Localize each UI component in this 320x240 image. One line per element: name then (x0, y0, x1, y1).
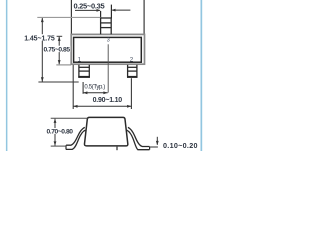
dimension 0.75~0.85 body depth (57, 35, 63, 37)
center line pin3 (107, 44, 109, 92)
svg-text:1.45~1.75: 1.45~1.75 (24, 35, 55, 42)
svg-text:0.75~0.85: 0.75~0.85 (44, 46, 71, 53)
side view: back center lead tick (116, 147, 118, 151)
dimension 0.70~0.80 height (51, 117, 88, 119)
pin 2 lead (top view) (128, 65, 137, 78)
dimension 0.25~0.35 lead width (75, 9, 130, 11)
package body outline (top view, outer mold line) (71, 34, 144, 64)
svg-text:3: 3 (107, 37, 110, 43)
svg-text:0.10~0.20: 0.10~0.20 (163, 141, 198, 150)
svg-text:0.70~0.80: 0.70~0.80 (47, 128, 74, 135)
svg-text:2: 2 (130, 57, 134, 64)
dimension 0.10~0.20 lead thickness (150, 146, 158, 148)
pin 3 witness extensions (100, 11, 102, 18)
package body outline (top view, inner top-surface line) (74, 37, 142, 62)
side view: lead pin right (gull wing) (127, 127, 150, 149)
table border right (blue) (201, 0, 203, 151)
dimension 0.90~1.10 pitch (72, 65, 74, 109)
svg-text:0.5(Typ.): 0.5(Typ.) (84, 84, 105, 90)
wire: cropped witness line to body right corner (143, 0, 145, 34)
pin 1 lead (top view) (79, 65, 89, 78)
svg-text:0.25~0.35: 0.25~0.35 (74, 1, 105, 10)
dimension 1.45~1.75 overall (37, 16, 100, 18)
side view: package body (84, 117, 127, 145)
side view: lead pin left (gull wing) (66, 127, 86, 149)
pin 3 lead (top view) (100, 17, 112, 34)
dimension 0.5(Typ.) (82, 82, 84, 94)
svg-text:0.90~1.10: 0.90~1.10 (93, 97, 123, 104)
svg-text:1: 1 (78, 57, 82, 64)
table border left (blue) (6, 0, 8, 151)
wire: cropped witness line to body left corner (70, 0, 72, 35)
